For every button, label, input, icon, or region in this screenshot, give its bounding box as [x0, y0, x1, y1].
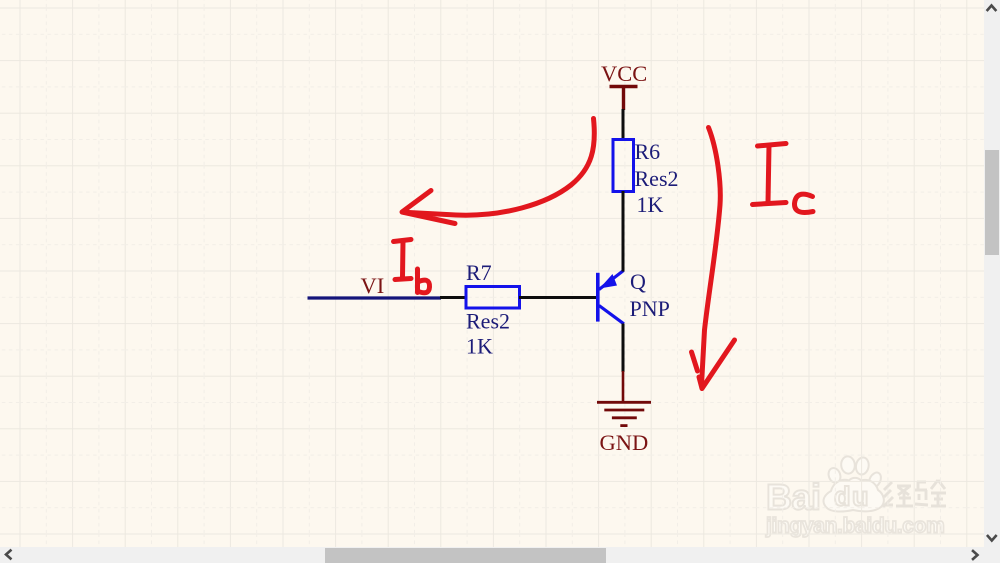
scrollbar vertical track	[984, 0, 1000, 547]
paw toes	[827, 466, 843, 484]
svg-text:Res2: Res2	[635, 166, 679, 191]
wire Q collector to GND	[622, 324, 625, 373]
annotation red label Ic	[753, 144, 814, 213]
jingyan characters of watermark	[883, 480, 946, 507]
transistor Q1 PNP symbol	[596, 271, 624, 324]
wire VI to R7 pin1	[440, 296, 467, 299]
wire Q emitter pin up to R6	[622, 270, 625, 272]
svg-text:PNP: PNP	[630, 296, 670, 321]
svg-text:GND: GND	[600, 430, 649, 455]
svg-text:R6: R6	[635, 139, 661, 164]
svg-text:VI: VI	[361, 273, 385, 298]
svg-text:R7: R7	[466, 260, 492, 285]
ground GND symbol	[597, 371, 651, 426]
annotation red label Ib	[394, 240, 430, 293]
svg-text:Res2: Res2	[466, 309, 510, 334]
wire VCC to R6 pin1	[622, 109, 625, 140]
annotation red arrow right (collector current)	[692, 128, 735, 389]
resistor R7	[466, 287, 520, 309]
scrollbar horizontal thumb	[325, 548, 606, 563]
scrollbar horizontal track	[0, 547, 1000, 563]
paw palm	[824, 478, 884, 512]
svg-text:Q: Q	[630, 269, 646, 294]
svg-text:VCC: VCC	[601, 61, 647, 86]
annotation red arrow left (base current sweep)	[402, 119, 594, 224]
svg-text:1K: 1K	[637, 192, 664, 217]
watermark Baidu Jingyan logo	[762, 448, 962, 548]
wire VI net (blue)	[308, 296, 442, 299]
wire R6 pin2 to Q collector	[622, 191, 625, 270]
svg-text:1K: 1K	[466, 334, 493, 359]
resistor R6	[613, 140, 634, 192]
wire R7 pin2 to Q base	[519, 296, 597, 299]
scrollbar vertical thumb	[985, 150, 999, 255]
power VCC symbol	[610, 87, 638, 111]
